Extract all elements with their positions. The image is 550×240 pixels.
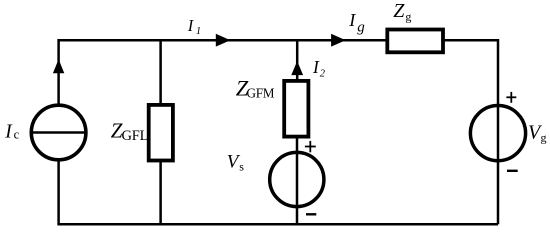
svg-text:1: 1 [196, 26, 201, 37]
plus sign of V_g [506, 92, 516, 103]
wire: Z_GFL bottom stub [159, 162, 162, 225]
svg-text:GFM: GFM [247, 86, 275, 101]
arrowhead I_g [331, 34, 346, 47]
wire: Z_GFL top stub [159, 40, 162, 104]
svg-text:g: g [405, 10, 411, 24]
arrowhead I_2 [291, 61, 303, 75]
svg-text:GFL: GFL [122, 128, 149, 144]
current source I_c diameter bar [31, 131, 86, 133]
svg-text:2: 2 [320, 69, 326, 80]
svg-text:Z: Z [393, 0, 405, 22]
wire: left branch below I_c source [57, 161, 60, 225]
svg-text:g: g [541, 131, 547, 145]
svg-text:I: I [348, 10, 356, 30]
current source I_c [31, 105, 86, 160]
wire: bottom rail [57, 223, 498, 226]
wire: middle branch top stub [296, 40, 299, 80]
resistor Z_g [387, 30, 443, 53]
wire: Z_g right to top-right corner and right riser [445, 40, 499, 224]
minus sign of V_g [507, 170, 518, 172]
wire: left riser + top rail to Z_g [59, 40, 386, 104]
resistor Z_GFM [284, 81, 308, 137]
svg-text:I: I [312, 57, 320, 77]
voltage source V_s [270, 152, 324, 206]
svg-text:g: g [357, 19, 365, 35]
svg-text:c: c [14, 128, 20, 142]
plus sign of V_s [305, 141, 316, 152]
arrowhead I_1 [216, 34, 231, 47]
minus sign of V_s [306, 213, 316, 215]
wire: middle branch through V_s to bottom rail [296, 138, 299, 225]
svg-text:s: s [239, 160, 244, 174]
resistor Z_GFL [149, 105, 173, 161]
voltage source V_g [470, 106, 525, 161]
arrow up (I_c direction) [53, 59, 64, 73]
